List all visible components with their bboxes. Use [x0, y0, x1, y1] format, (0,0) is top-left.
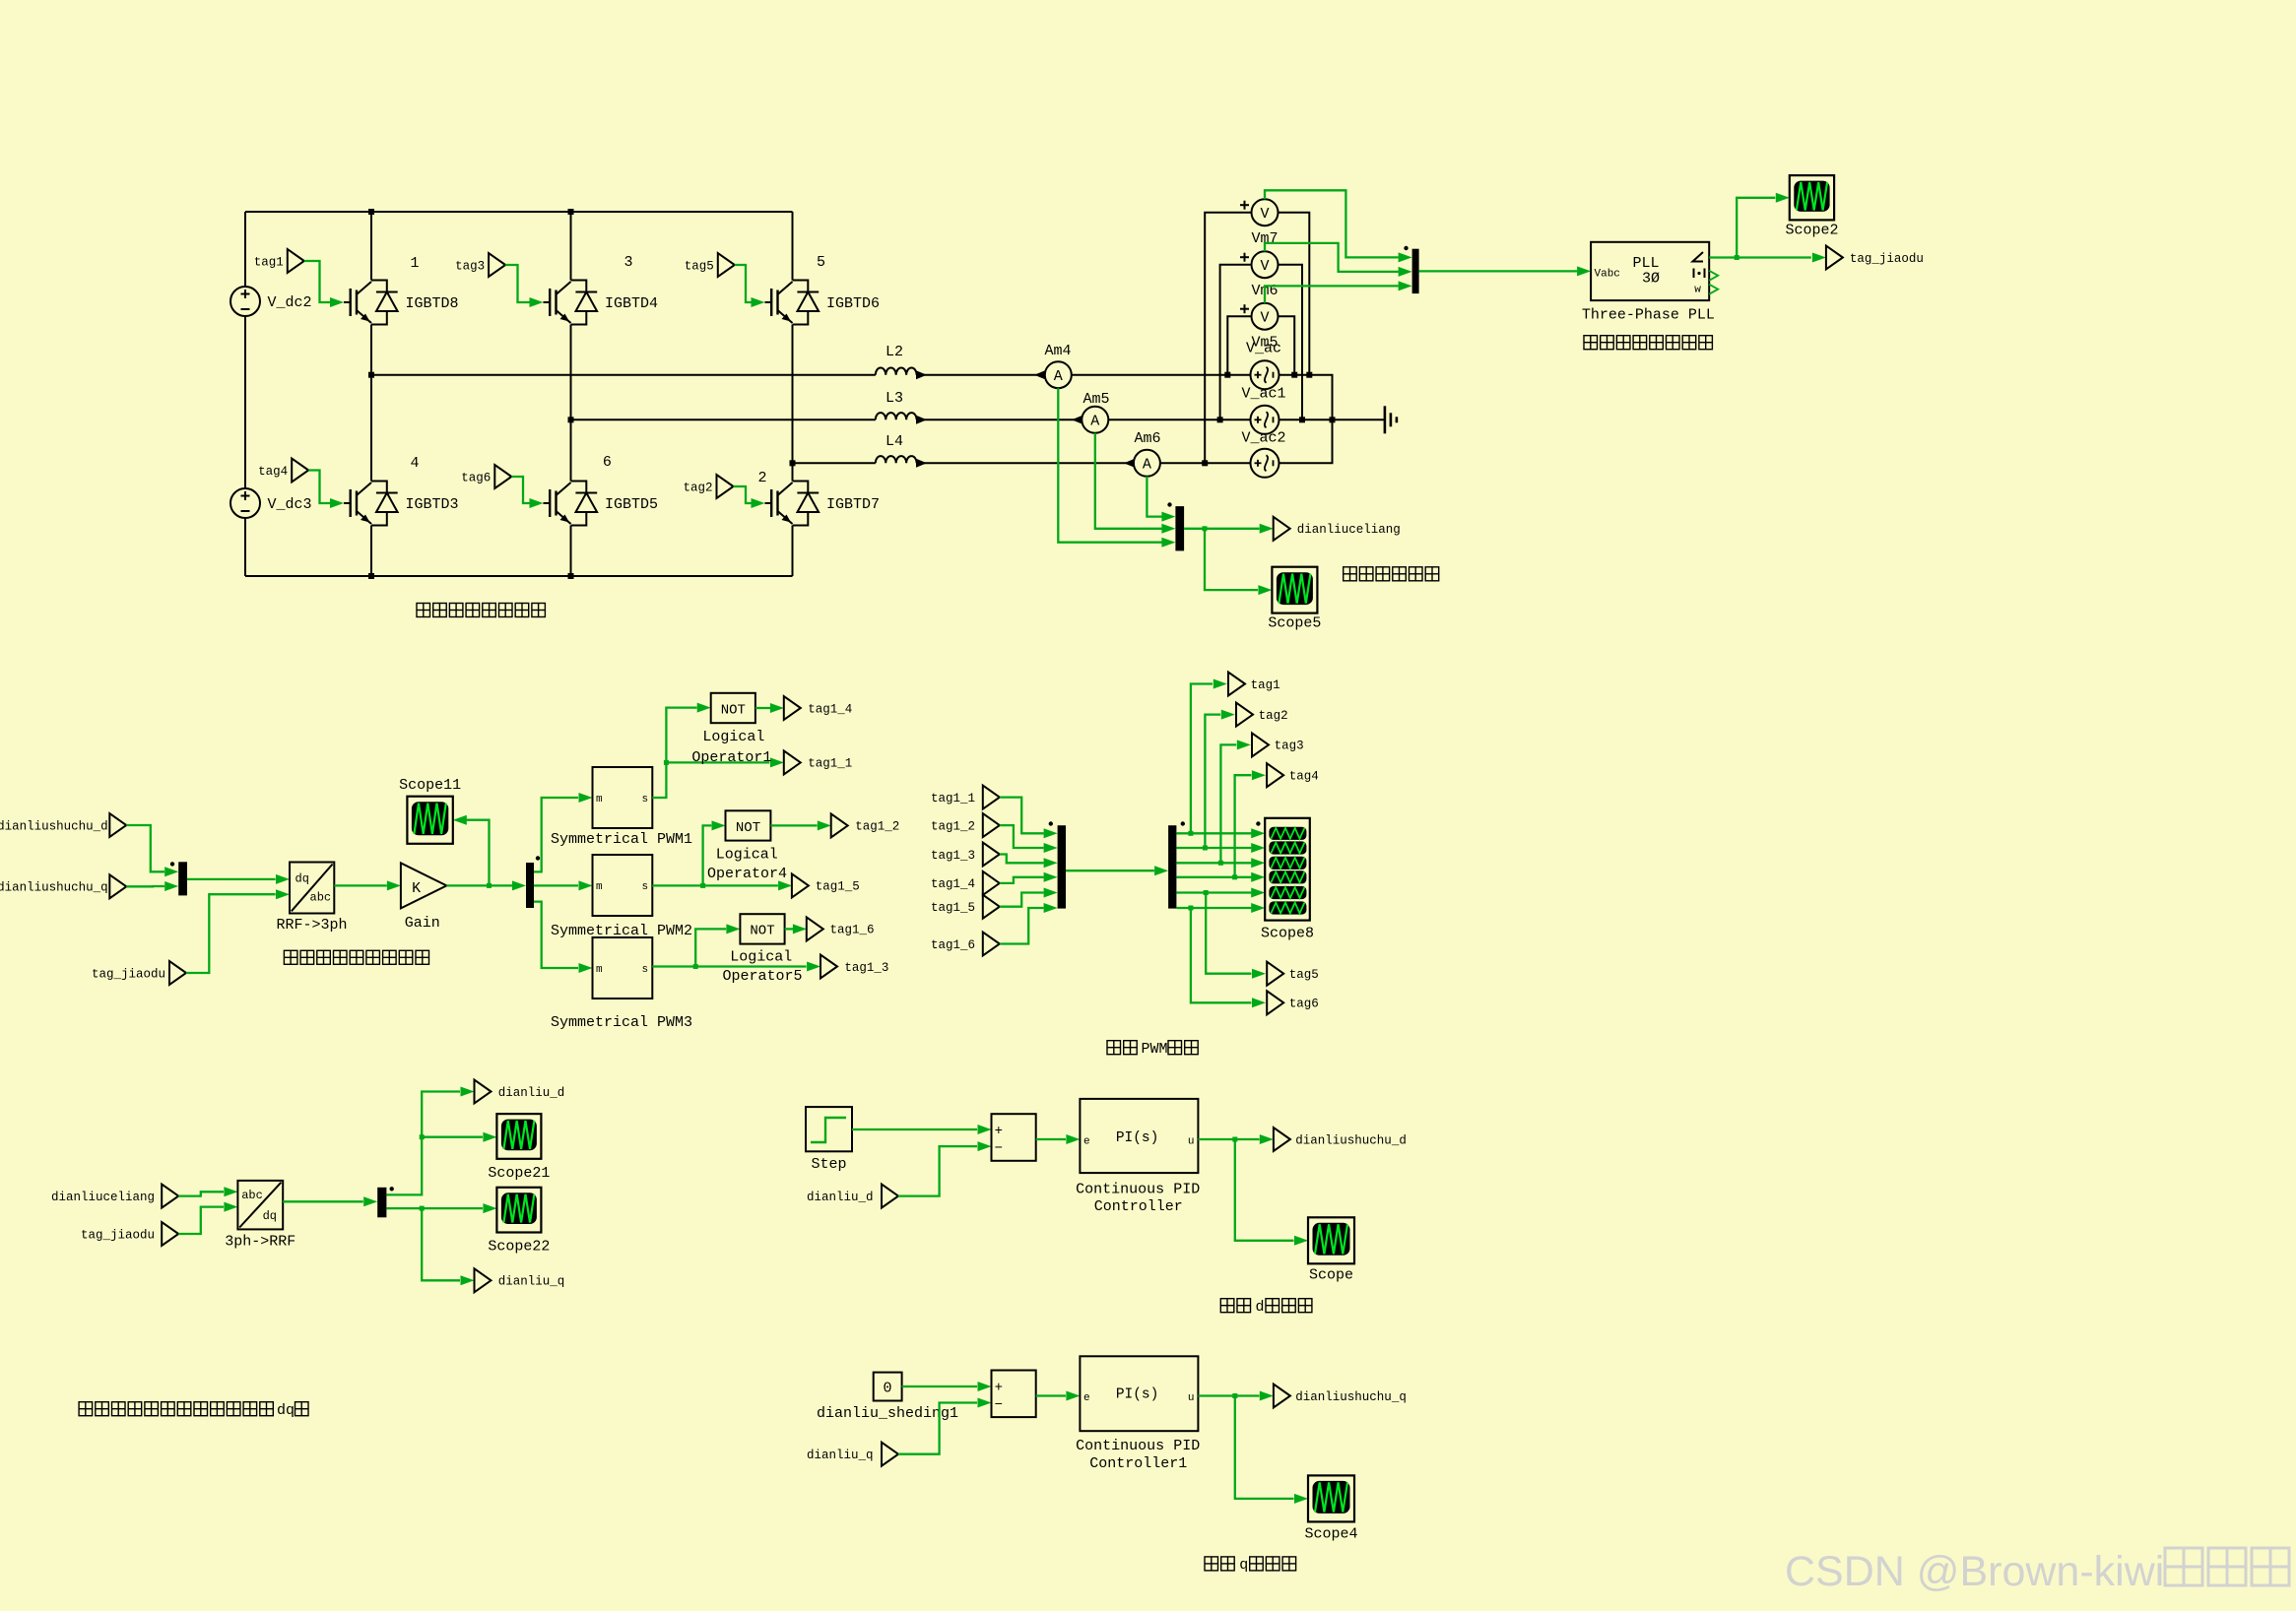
wire mux2 to PWM3 [534, 902, 578, 968]
svg-text:u: u [1188, 1135, 1195, 1147]
tag tag1_6 [807, 917, 823, 940]
junction neutral phase B [1330, 417, 1336, 422]
wire tag_jiaodu to 3ph [178, 1207, 224, 1234]
svg-text:Scope8: Scope8 [1261, 926, 1314, 942]
label V_ac1 [1241, 386, 1285, 403]
arrow Vm5 sense [1399, 281, 1412, 290]
junction Vm5 lead phase A [1224, 372, 1230, 378]
junction demux out 6 [1188, 906, 1193, 911]
block NOT Logical Operator5 [740, 914, 784, 943]
label Scope5 [1268, 615, 1321, 632]
arrow into tag1_4 [770, 703, 784, 713]
svg-text:V_ac: V_ac [1246, 341, 1281, 357]
wire bottom DC rail [245, 575, 793, 577]
junction gain out [487, 883, 492, 888]
svg-text:dianliuceliang: dianliuceliang [51, 1191, 155, 1204]
demux pwm 1to6 [1168, 821, 1185, 908]
wire 3ph to demux2 [283, 1200, 363, 1202]
wire tag4 to gate [308, 471, 331, 504]
arrow into mux d [164, 867, 178, 876]
svg-text:Logical: Logical [702, 729, 764, 745]
label dianliu_d source [807, 1191, 874, 1204]
svg-text:Scope11: Scope11 [399, 777, 461, 794]
svg-text:A: A [1143, 457, 1151, 474]
wire RRF to Gain [334, 884, 387, 886]
arrow after L3 [916, 416, 927, 424]
svg-text:tag2: tag2 [683, 481, 712, 494]
block sum2 [992, 1371, 1036, 1418]
label tag1_6 source [931, 938, 975, 952]
wire mux2 to PWM2 [534, 884, 578, 886]
block constant dianliu_sheding1 [874, 1373, 902, 1401]
dc source V_dc2 [230, 287, 260, 316]
label Vm6 [1251, 283, 1278, 299]
label RRF->3ph [276, 917, 347, 934]
label Logical5 [730, 949, 792, 966]
tag tag6 [461, 465, 511, 488]
wire demux2 to dianliu_q [386, 1208, 460, 1280]
arrow into dianliuceliang [1260, 524, 1274, 534]
wire Vm7 left lead [1205, 213, 1251, 464]
svg-text:tag5: tag5 [1289, 968, 1319, 982]
inductor L4 [876, 456, 917, 463]
tag dianliu_d out [475, 1080, 492, 1104]
label tag1_6 [830, 924, 875, 937]
arrow after L2 [916, 370, 927, 379]
svg-text:tag6: tag6 [461, 471, 491, 484]
arrow tag1_4 into mux [1044, 872, 1058, 882]
svg-text:q: q [1239, 1557, 1248, 1574]
arrow into Scope4 [1294, 1494, 1308, 1504]
arrow into RRF in1 [276, 874, 290, 884]
svg-text:tag1_2: tag1_2 [855, 820, 899, 834]
label L4 [886, 433, 903, 450]
label dianliushuchu_d [0, 819, 108, 833]
svg-text:tag1: tag1 [1251, 678, 1280, 692]
wire demux out 3 to Scope8 [1176, 862, 1251, 864]
svg-text:V_ac2: V_ac2 [1241, 430, 1285, 447]
svg-text:tag5: tag5 [685, 259, 714, 273]
scope Scope5 [1272, 567, 1317, 613]
svg-text:tag_jiaodu: tag_jiaodu [92, 967, 165, 981]
svg-text:m: m [596, 794, 603, 805]
wire dianliu_q to sum2 [898, 1403, 977, 1454]
label V_dc3 [268, 496, 312, 513]
wire mux to RRF [187, 878, 276, 880]
svg-text:dq: dq [277, 1402, 295, 1419]
wire PWM2 s out [652, 884, 778, 886]
tag dianliuceliang [1274, 517, 1290, 541]
svg-text:dianliu_q: dianliu_q [807, 1449, 874, 1462]
pin number 1 [410, 255, 419, 272]
svg-text:IGBTD6: IGBTD6 [826, 295, 880, 312]
svg-text:tag1_4: tag1_4 [931, 877, 975, 891]
arrow into sum+ [978, 1125, 992, 1134]
label Am6 [1134, 430, 1160, 447]
junction demux out 5 [1204, 890, 1209, 895]
block Symmetrical PWM2 [593, 855, 653, 916]
svg-text:tag2: tag2 [1259, 709, 1288, 723]
wire PI2 out [1198, 1394, 1259, 1396]
label 3ph->RRF [225, 1234, 295, 1251]
label PLL caption [1584, 336, 1712, 350]
wire tag1_2 to mux [1000, 825, 1044, 848]
gate arrow tag1 [330, 297, 344, 307]
svg-text:u: u [1188, 1392, 1195, 1404]
junction demux out 3 [1218, 861, 1223, 866]
junction PI2 out [1232, 1393, 1237, 1398]
arrow into 3ph in1 [224, 1187, 237, 1196]
scope Scope [1308, 1217, 1354, 1263]
wire Am5 sense [1095, 433, 1162, 529]
svg-text:m: m [596, 964, 603, 976]
arrow into dianliushuchu_d [1260, 1134, 1274, 1144]
arrow into Scope [1294, 1236, 1308, 1246]
arrow tag1_1 into mux [1044, 828, 1058, 838]
tag tag1_3 source [983, 843, 1000, 867]
tag tag1_6 source [983, 933, 1000, 956]
wire leg2 mid segment [570, 325, 572, 482]
IGBT IGBTD3 [344, 482, 398, 526]
arrow into tag2 [1221, 710, 1235, 720]
tag tag1_4 source [983, 871, 1000, 895]
arrow into tag6 [1252, 998, 1266, 1007]
tag tag1_4 [784, 696, 801, 720]
label dq decomposition caption [79, 1402, 308, 1419]
IGBT IGBTD6 [765, 281, 820, 325]
label IGBTD3 [406, 496, 459, 513]
wire to Scope5 [1205, 529, 1258, 590]
tag dianliushuchu_q [109, 874, 126, 898]
wire to Scope4 [1235, 1396, 1294, 1499]
wire phase B to Am5 [917, 419, 1082, 420]
svg-text:w: w [1694, 284, 1701, 295]
label Gain [405, 915, 440, 932]
block Step [806, 1107, 852, 1151]
svg-text:tag1_5: tag1_5 [816, 880, 860, 894]
arrow into tag1_2 [818, 820, 831, 830]
tag tag_jiaodu source [169, 961, 186, 985]
svg-text:tag_jiaodu: tag_jiaodu [81, 1228, 155, 1242]
arrow into dianliushuchu_q [1260, 1391, 1274, 1401]
inductor L2 [876, 367, 917, 374]
arrow tag1_5 into mux [1044, 888, 1058, 898]
block sum1 [992, 1114, 1036, 1161]
wire leg2 bottom segment [570, 526, 572, 577]
arrow into PI e [1066, 1134, 1080, 1144]
wire PI out [1198, 1138, 1259, 1140]
block Continuous PID Controller [1080, 1099, 1198, 1173]
svg-text:Symmetrical PWM1: Symmetrical PWM1 [551, 831, 692, 848]
svg-text:V_dc3: V_dc3 [268, 496, 312, 513]
wire to tag4 [1235, 775, 1252, 877]
wire mux2 to PWM1 [534, 798, 578, 871]
svg-text:V: V [1260, 309, 1269, 326]
arrow into tag1_6 [793, 924, 807, 934]
label measure current caption [1344, 567, 1439, 581]
block Continuous PID Controller1 [1080, 1356, 1198, 1431]
svg-text:tag4: tag4 [258, 465, 288, 479]
svg-text:5: 5 [817, 254, 825, 271]
IGBT IGBTD4 [544, 281, 598, 325]
wire phase C [793, 462, 876, 464]
gate arrow tag5 [752, 297, 765, 307]
label tag_jiaodu [1850, 252, 1924, 266]
label Scope8 [1261, 926, 1314, 942]
wire leg3 top segment [792, 212, 794, 281]
label V_dc2 [268, 294, 312, 311]
svg-text:e: e [1083, 1392, 1090, 1404]
junction Vm5 right lead phase A [1291, 372, 1297, 378]
wire demux out 6 to Scope8 [1176, 907, 1251, 909]
wire PWM3 s out [652, 965, 806, 967]
arrow into RRF in2 [276, 889, 290, 899]
svg-text:3Ø: 3Ø [1642, 271, 1660, 288]
wire to Scope22 [422, 1207, 483, 1209]
svg-text:Vabc: Vabc [1595, 268, 1620, 280]
label Scope21 [488, 1165, 550, 1182]
tag tag_jiaodu [1826, 246, 1843, 270]
wire demux out 2 to Scope8 [1176, 847, 1251, 849]
arrow into Am5 [1072, 416, 1082, 424]
svg-text:tag1_5: tag1_5 [931, 901, 975, 915]
arrow into sum- [978, 1141, 992, 1151]
IGBT IGBTD5 [544, 482, 598, 526]
gain K [401, 863, 447, 908]
scope Scope11 [407, 797, 452, 844]
arrow into tag3 [1237, 740, 1251, 749]
tag dianliu_q source [882, 1443, 898, 1466]
tag tag6 out [1267, 991, 1283, 1014]
tag dianliushuchu_q out [1274, 1385, 1290, 1408]
svg-text:tag1_6: tag1_6 [830, 924, 875, 937]
wire top DC rail [245, 211, 793, 213]
wire demux out 1 to Scope8 [1176, 832, 1251, 834]
svg-text:CSDN @Brown-kiwi: CSDN @Brown-kiwi [1785, 1548, 2164, 1595]
label Logical1 [702, 729, 764, 745]
svg-text:Controller: Controller [1094, 1198, 1183, 1215]
wire sum1 to PI [1036, 1138, 1066, 1140]
label Operator1 [691, 749, 771, 766]
wire to Scope11 [467, 820, 490, 886]
junction PWM2 s [700, 883, 705, 888]
svg-text:−: − [995, 1397, 1003, 1413]
gate arrow tag3 [530, 297, 544, 307]
arrow into Scope8 ch3 [1251, 858, 1265, 868]
gate arrow tag2 [752, 498, 765, 508]
arrow Am6 sense [1161, 512, 1175, 522]
wire leg2 top segment [570, 212, 572, 281]
wire Am4 sense [1058, 388, 1161, 543]
svg-text:A: A [1054, 368, 1063, 385]
junction PLL out [1735, 255, 1739, 260]
label tag1_2 [855, 820, 899, 834]
svg-text:+: + [995, 1380, 1003, 1395]
wire phase A to V_ac1 [1072, 374, 1251, 376]
wire Vm5 right lead [1279, 316, 1295, 375]
svg-text:tag1_1: tag1_1 [931, 792, 975, 805]
voltmeter Vm7 [1240, 199, 1279, 226]
junction phase B leg2 [568, 417, 574, 422]
arrow Am4 sense [1161, 538, 1175, 548]
label tag1_5 [816, 880, 860, 894]
arrow into mux q [164, 881, 178, 891]
wire Vm7 sense [1265, 190, 1399, 257]
pin number 6 [603, 454, 612, 471]
tag tag3 out [1252, 733, 1269, 756]
label Symmetrical PWM2 [551, 923, 692, 939]
svg-text:Operator1: Operator1 [691, 749, 771, 766]
svg-text:PWM: PWM [1142, 1041, 1168, 1058]
label Operator4 [707, 866, 787, 882]
label IGBTD7 [826, 496, 880, 513]
arrow into Scope8 ch5 [1251, 888, 1265, 898]
svg-text:Scope2: Scope2 [1785, 223, 1838, 239]
label Scope2 [1785, 223, 1838, 239]
label Continuous PID [1076, 1182, 1200, 1198]
label Am4 [1044, 343, 1071, 359]
wire dianliuceliang to 3ph [178, 1192, 224, 1195]
wire Step to sum [852, 1128, 977, 1130]
label Scope22 [488, 1239, 550, 1256]
svg-text:dianliuceliang: dianliuceliang [1297, 523, 1401, 537]
wire phase C to V_ac3 [1160, 462, 1251, 464]
wire to Scope [1235, 1139, 1294, 1241]
junction bottom rail leg2 [568, 573, 574, 579]
wire tag3 to gate [505, 265, 530, 302]
svg-text:6: 6 [603, 454, 612, 471]
svg-text:dianliushuchu_d: dianliushuchu_d [1295, 1133, 1407, 1147]
wire leg1 bottom segment [370, 526, 372, 577]
tag tag1 [254, 249, 304, 273]
junction demux out 4 [1232, 874, 1237, 879]
svg-text:dianliushuchu_q: dianliushuchu_q [0, 881, 108, 895]
wire mux to demux [1066, 870, 1154, 871]
label dianliushuchu_d out [1295, 1133, 1407, 1147]
svg-text:NOT: NOT [750, 924, 774, 939]
svg-text:+: + [995, 1124, 1003, 1139]
svg-text:Controller1: Controller1 [1089, 1455, 1187, 1472]
svg-text:dianliu_sheding1: dianliu_sheding1 [817, 1405, 958, 1422]
svg-text:Gain: Gain [405, 915, 440, 932]
label tag1_2 source [931, 819, 975, 833]
ammeter Am5 [1082, 407, 1108, 433]
junction phase A leg1 [368, 372, 374, 378]
tag tag1_3 [820, 955, 837, 979]
svg-text:3: 3 [623, 254, 632, 271]
voltmeter Vm5 [1240, 303, 1279, 330]
wire tag1_4 to mux [1000, 877, 1044, 883]
pin number 5 [817, 254, 825, 271]
svg-text:PI(s): PI(s) [1116, 1386, 1159, 1402]
pin number 3 [623, 254, 632, 271]
junction demux out 1 [1188, 831, 1193, 836]
wire Vm5 left lead [1227, 316, 1251, 375]
IGBT IGBTD8 [344, 281, 398, 325]
svg-text:Three-Phase PLL: Three-Phase PLL [1582, 306, 1715, 323]
label tag3 out [1275, 740, 1304, 753]
wire left bus middle [244, 316, 246, 488]
wire Vm6 left lead [1220, 265, 1252, 420]
wire tag1_3 to mux [1000, 855, 1044, 864]
label IGBTD4 [605, 295, 658, 312]
wire to tag2 [1205, 715, 1220, 848]
svg-text:NOT: NOT [721, 702, 746, 718]
scope Scope22 [496, 1188, 541, 1233]
tag dianliuceliang source [162, 1185, 178, 1208]
svg-text:V: V [1260, 258, 1269, 275]
svg-text:abc: abc [310, 891, 332, 905]
label tag4 out [1289, 770, 1319, 784]
wire tag1_1 to mux [1000, 798, 1044, 834]
scope Scope4 [1308, 1475, 1354, 1521]
svg-text:1: 1 [410, 255, 419, 272]
arrow into Scope2 [1776, 193, 1790, 203]
demux dq 1to2 [377, 1187, 394, 1217]
label L3 [886, 390, 903, 407]
arrow Vm7 sense [1399, 252, 1412, 262]
label tag1_4 source [931, 877, 975, 891]
svg-text:tag1_1: tag1_1 [808, 757, 852, 771]
wire up to NOT4 [703, 825, 712, 885]
wire to Scope21 [422, 1136, 483, 1138]
svg-text:Logical: Logical [730, 949, 792, 966]
tag tag5 [685, 253, 735, 277]
svg-text:Scope22: Scope22 [488, 1239, 550, 1256]
wire to tag6 [1191, 908, 1252, 1002]
svg-text:tag6: tag6 [1289, 998, 1319, 1011]
arrow into Scope5 [1258, 585, 1272, 595]
tag tag5 out [1267, 962, 1283, 986]
tag tag_jiaodu 3ph [162, 1222, 178, 1246]
arrow into Am6 [1124, 459, 1135, 468]
arrow tag1_3 into mux [1044, 858, 1058, 868]
tag tag1_1 source [983, 786, 1000, 809]
wire to tag1_1 [666, 761, 769, 763]
arrow into PLL [1577, 266, 1591, 276]
svg-text:PI(s): PI(s) [1116, 1130, 1159, 1146]
tag dianliushuchu_d [109, 813, 126, 837]
svg-text:dianliu_q: dianliu_q [498, 1275, 565, 1289]
arrow into PWM2 [579, 880, 593, 890]
svg-text:A: A [1090, 414, 1099, 430]
label Three-Phase PLL [1582, 306, 1715, 323]
label observe PWM caption [1107, 1041, 1198, 1058]
tag tag2 [683, 475, 733, 498]
svg-text:Scope: Scope [1309, 1267, 1353, 1284]
arrow into PWM3 [579, 963, 593, 973]
svg-text:Scope4: Scope4 [1304, 1526, 1357, 1543]
ac source V_ac1 [1251, 406, 1279, 434]
wire V_ac1 right [1279, 419, 1385, 420]
inductor L3 [876, 413, 917, 419]
arrow into tag4 [1252, 770, 1266, 780]
label dianliu_q out [498, 1275, 565, 1289]
label Controller1 [1089, 1455, 1187, 1472]
label Continuous PID 2 [1076, 1438, 1200, 1454]
arrow into Scope8 ch6 [1251, 903, 1265, 913]
ammeter Am6 [1134, 450, 1160, 477]
ac source V_ac2 [1251, 449, 1279, 478]
svg-text:Logical: Logical [716, 847, 778, 864]
junction PI out [1232, 1137, 1237, 1142]
junction top rail leg2 [568, 209, 574, 215]
tag tag2 out [1236, 703, 1253, 727]
arrow into PI2 e [1066, 1391, 1080, 1401]
svg-text:Am5: Am5 [1082, 391, 1109, 408]
block Symmetrical PWM3 [593, 937, 653, 999]
arrow into Scope21 [483, 1132, 496, 1142]
